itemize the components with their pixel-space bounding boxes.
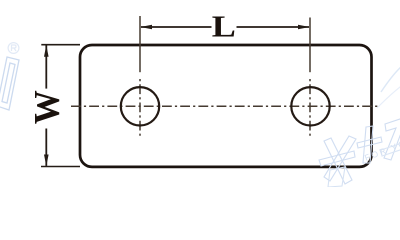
watermark below bottom edge	[328, 167, 345, 187]
left hole vertical centerline / extension line	[139, 16, 141, 138]
watermark top-left logo fragment	[0, 57, 19, 110]
watermark bottom-right logo: crossed-stroke glyph	[319, 136, 356, 184]
svg-text:L: L	[212, 10, 236, 44]
watermark swoosh right	[381, 66, 400, 92]
arrow W up	[44, 45, 49, 57]
label L	[212, 10, 236, 44]
watermark bottom-right logo: stem glyph	[357, 126, 382, 163]
svg-text:W: W	[27, 90, 67, 124]
arrow L left	[140, 25, 152, 30]
extension line W bottom	[41, 166, 80, 168]
arrow W down	[44, 155, 49, 167]
watermark top-left registered mark	[8, 43, 19, 54]
extension line W top	[41, 44, 80, 46]
horizontal centerline	[71, 105, 379, 107]
left hole	[121, 87, 159, 125]
arrow L right	[298, 25, 310, 30]
dimension line L right segment	[237, 26, 310, 28]
dimension line W top segment	[45, 45, 47, 88]
dimension line L left segment	[141, 26, 212, 28]
right hole vertical centerline / extension line	[309, 18, 311, 138]
right hole	[291, 87, 329, 125]
watermark bottom-right small text	[363, 135, 400, 163]
plate outline	[80, 45, 372, 167]
watermark bottom-right logo: right clipped glyph	[381, 118, 400, 160]
dimension line W bottom segment	[45, 129, 47, 166]
